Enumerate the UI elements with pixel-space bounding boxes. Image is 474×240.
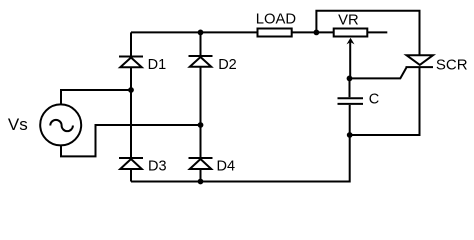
svg-text:Vs: Vs: [8, 115, 28, 134]
potentiometer VR: [334, 29, 368, 45]
AC source Vs: [40, 104, 81, 145]
wire VR right stub: [366, 31, 387, 33]
wire left column middle (D1 anode to D3 cathode through node): [130, 67, 132, 158]
capacitor C: [338, 98, 364, 104]
svg-text:VR: VR: [338, 12, 359, 28]
wire left column bottom (D3 anode to bottom rail): [130, 169, 132, 182]
wire LOAD to junction A: [292, 31, 317, 33]
svg-text:LOAD: LOAD: [256, 12, 296, 28]
node bottom junction cap-SCR-rail: [347, 132, 353, 138]
node D2-D4 / source bottom: [198, 122, 204, 128]
wire cap bottom lead: [349, 105, 351, 135]
wire bypass from junction A up over to SCR anode: [316, 11, 419, 56]
svg-text:C: C: [369, 92, 379, 108]
wire source top terminal to left bridge node: [61, 90, 131, 104]
wire right column bottom (D4 anode to bottom rail): [200, 169, 202, 182]
wire top rail from bridge to LOAD: [131, 31, 258, 33]
diode D1: [119, 57, 143, 68]
diode D4: [189, 158, 213, 169]
wire source bottom terminal to right bridge node: [61, 125, 201, 156]
wire junction A to VR left terminal: [316, 31, 334, 33]
diode D2: [189, 56, 213, 67]
wire cap top lead: [349, 78, 351, 97]
svg-text:D3: D3: [148, 158, 167, 174]
resistor LOAD: [258, 29, 292, 37]
diode D3: [119, 158, 143, 169]
svg-text:D1: D1: [148, 57, 167, 73]
node D2 top rail: [198, 30, 204, 36]
wire bottom rail: [131, 135, 350, 182]
wire gate node to SCR gate: [350, 68, 407, 79]
wire SCR cathode down and left to bottom node: [350, 67, 420, 135]
wire right column middle (D2 anode to D4 cathode through node): [200, 67, 202, 158]
node D1-D3 / source top: [128, 87, 134, 93]
node A junction LOAD-VR-bypass: [314, 30, 320, 36]
node D4 bottom rail: [198, 179, 204, 185]
svg-text:D4: D4: [217, 158, 236, 174]
SCR: [406, 55, 434, 67]
node gate junction wiper-cap-gate: [347, 76, 353, 82]
wire right column top (rail to D2): [200, 32, 202, 56]
wire left column top (rail to D1): [130, 32, 132, 56]
wire VR wiper stem down to gate node: [349, 40, 351, 78]
svg-text:D2: D2: [218, 57, 237, 73]
svg-text:SCR: SCR: [436, 56, 468, 73]
node junction dots: [128, 30, 353, 185]
